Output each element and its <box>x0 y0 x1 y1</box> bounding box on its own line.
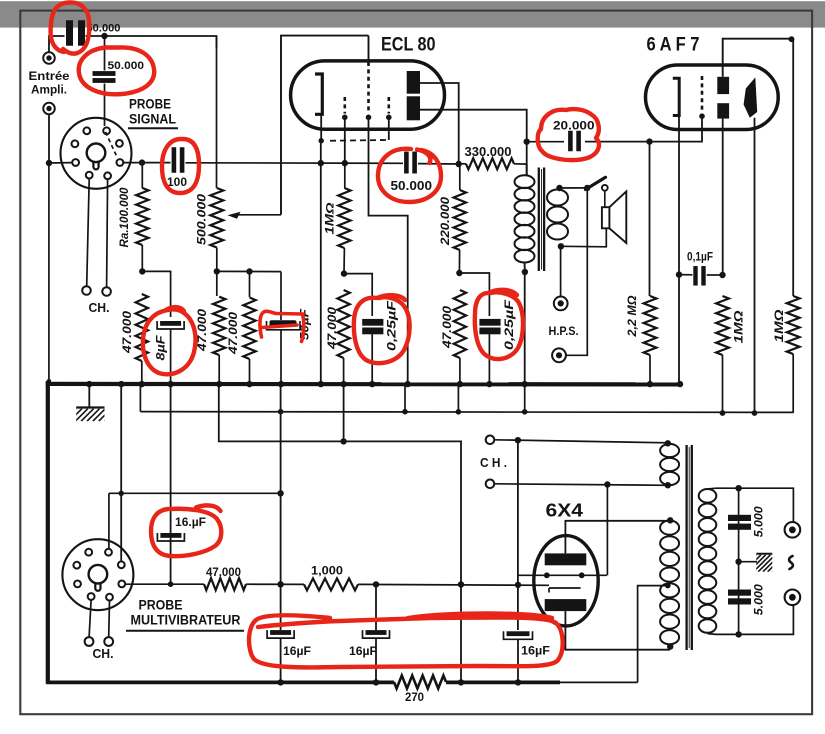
wire Ra to 8uF <box>142 271 170 317</box>
node y493 121 <box>119 491 124 496</box>
grid element 6AF7 <box>673 78 679 115</box>
secondary coil audio <box>547 190 568 206</box>
node secondary top <box>556 185 562 191</box>
wire signal line b <box>186 162 404 165</box>
terminal Entree top <box>43 52 55 64</box>
wire secondary top to switch <box>560 187 588 189</box>
svg-text:PROBE: PROBE <box>139 598 183 613</box>
resistor 47.000 E <box>454 290 466 358</box>
svg-text:2,2 MΩ: 2,2 MΩ <box>625 295 639 338</box>
red circle cap 8uF <box>143 307 196 374</box>
node sec top cap <box>735 485 741 491</box>
capacitor 16uF B <box>270 630 291 635</box>
resistor 330.000 <box>466 158 514 169</box>
capacitor 50.000 A <box>66 20 73 46</box>
node pot bottom <box>214 268 220 274</box>
capacitor 50uF <box>270 320 297 327</box>
svg-text:Entrée: Entrée <box>29 69 70 83</box>
resistor 2.2M <box>649 142 651 296</box>
node feed 343 <box>340 438 346 444</box>
wire grid node to 6AF7 pin <box>650 117 703 142</box>
heater pin 6AF7 <box>701 76 704 113</box>
capacitor 5.000 B <box>728 590 751 596</box>
wire B- line <box>140 411 793 414</box>
node 220k bottom <box>456 270 462 276</box>
svg-text:Ra.100.000: Ra.100.000 <box>119 187 131 248</box>
terminal Entree bottom <box>43 103 55 115</box>
svg-text:16µF: 16µF <box>349 646 377 658</box>
svg-text:CH.: CH. <box>89 301 110 315</box>
node input junction <box>46 160 52 166</box>
node primary bottom <box>522 269 528 275</box>
node 518 heater <box>515 437 521 443</box>
wire col280 bus to bottom <box>280 384 282 630</box>
red circle cap 0.25uF A <box>354 295 410 363</box>
resistor 1M B <box>787 296 800 354</box>
svg-text:1,000: 1,000 <box>311 566 343 578</box>
potentiometer 500.000 <box>216 36 218 188</box>
stub c <box>457 386 459 412</box>
stub d <box>524 386 526 412</box>
node 0.1uF right <box>719 272 725 278</box>
wire 0.1uF <box>679 274 693 276</box>
capacitor 20.000 <box>568 131 573 152</box>
wire secondary to HPS top <box>560 246 562 296</box>
red circle cap 50.000 B <box>79 47 154 94</box>
wire dashed socket internal <box>106 132 118 157</box>
svg-text:Ampli.: Ampli. <box>31 83 67 97</box>
node HV center tap <box>665 583 671 589</box>
heater pin dashed b <box>367 62 370 114</box>
resistor 220.000 <box>459 164 461 190</box>
wire signal line c <box>418 163 459 165</box>
wire pin c to grid line <box>388 117 390 140</box>
node B- 722 <box>720 410 726 416</box>
label AC tilde <box>789 556 793 569</box>
underline signal <box>128 127 178 129</box>
svg-text:47.000: 47.000 <box>206 567 241 579</box>
capacitor 16uF D <box>507 631 530 636</box>
node B- 754 <box>752 410 758 416</box>
terminal output top <box>785 522 801 538</box>
stub bus to B- line <box>139 386 141 412</box>
wire grid pin to bus <box>320 141 322 384</box>
secondary winding <box>699 489 717 503</box>
wire 50uF to bus <box>280 330 282 384</box>
wire 1M to 0.25 A <box>344 274 372 316</box>
wire 16uF B to bottom <box>280 639 282 683</box>
svg-text:MULTIVIBRATEUR: MULTIVIBRATEUR <box>131 613 241 628</box>
red loop 16uF caps <box>249 615 563 667</box>
wire 6AF7 grid pin to bus end <box>678 116 680 385</box>
wire cap B to socket pin <box>104 84 106 127</box>
red loop 16uF D extra <box>408 614 552 619</box>
node 376 line <box>373 581 379 587</box>
wire 0.25 B to bus <box>488 334 490 384</box>
resistor 47.000 F <box>204 578 246 590</box>
svg-text:5.000: 5.000 <box>754 506 766 538</box>
wire 6AF7 target pin down <box>754 118 756 413</box>
svg-text:330.000: 330.000 <box>465 145 512 159</box>
underline multivibrateur <box>126 630 244 632</box>
resistor 47.000 A <box>136 294 148 361</box>
node 47k C top <box>246 268 252 274</box>
wire 1M B bottom corner <box>792 411 794 413</box>
wiper arrow <box>228 212 241 219</box>
core power transformer <box>685 445 687 650</box>
wire col170 below bus <box>170 384 172 585</box>
wire col121 <box>120 384 122 562</box>
terminal CH left a <box>82 286 91 295</box>
wire 6AF7 anode pin down <box>722 119 724 275</box>
node 460 line <box>458 581 464 587</box>
svg-text:1MΩ: 1MΩ <box>732 310 746 344</box>
terminal HPS top <box>554 297 568 311</box>
svg-text:47.000: 47.000 <box>197 308 209 352</box>
terminal switch contact <box>602 185 608 191</box>
node B- 280 <box>278 409 284 415</box>
node plate2 branch <box>524 139 530 145</box>
wire 8uF to bus <box>170 330 172 385</box>
red circle cap 0.25uF B <box>475 290 523 359</box>
wire col343 below bus <box>343 384 345 441</box>
tube ECL80 envelope <box>291 61 445 129</box>
wire to cap 20.000 <box>527 141 564 143</box>
speaker driver <box>602 207 610 228</box>
HV winding <box>660 521 679 535</box>
resistor 270 <box>394 676 446 689</box>
node 280 line <box>277 581 283 587</box>
capacitor 16uF C <box>366 630 387 635</box>
anode plate 6X4 bottom <box>545 599 587 611</box>
svg-text:C H .: C H . <box>480 456 507 470</box>
svg-text:500.000: 500.000 <box>197 193 209 245</box>
node grid pin <box>319 138 324 143</box>
svg-text:50.000: 50.000 <box>87 23 121 35</box>
wire socket pin to CH left b <box>107 179 108 287</box>
svg-text:6X4: 6X4 <box>546 500 584 521</box>
anode plates 6AF7 <box>717 77 729 94</box>
red circle cap 50.000 C <box>378 149 441 202</box>
svg-text:16µF: 16µF <box>283 646 311 658</box>
wire socket2 E pin to line <box>126 583 204 585</box>
node bottom dots <box>277 679 283 685</box>
node ground mid <box>735 559 741 565</box>
svg-text:16.µF: 16.µF <box>175 517 206 529</box>
wire primary bottom to bus <box>524 272 526 384</box>
capacitor 16uF A <box>160 533 181 538</box>
node 0.1uF left <box>676 271 682 277</box>
svg-text:H.P.S.: H.P.S. <box>549 324 579 338</box>
heater winding <box>660 444 679 457</box>
wire feed line y441 <box>219 386 461 683</box>
terminal HPS bottom <box>552 348 566 362</box>
red circle cap 100 <box>162 139 199 193</box>
node 330k left <box>456 161 462 167</box>
capacitor 0.25uF B <box>479 319 500 326</box>
wire switch contact to speaker <box>604 191 606 208</box>
svg-text:PROBE: PROBE <box>129 97 171 112</box>
speaker horn <box>609 191 626 243</box>
tube 6AF7 envelope <box>646 65 779 130</box>
node 1M bottom <box>341 270 347 276</box>
terminal CH bottom b <box>104 637 113 646</box>
grid element ECL80 <box>315 74 322 114</box>
node switch <box>584 185 590 191</box>
anode plate ECL80 1 <box>407 71 420 94</box>
ground symbol right <box>739 561 757 563</box>
terminal CH left b <box>102 287 111 296</box>
capacitor 0.1uF <box>693 266 697 286</box>
wire secondary top <box>708 488 794 522</box>
cathode line2 6X4 <box>549 587 581 589</box>
wire HPS bottom to switch <box>566 188 587 355</box>
wire terminal1 to cap 50.000 A <box>49 36 65 52</box>
svg-text:SIGNAL: SIGNAL <box>129 112 176 127</box>
capacitor 100 <box>172 147 177 173</box>
capacitor 8uF <box>160 321 181 326</box>
core audio transformer <box>538 168 540 272</box>
wire right column 1M B <box>792 39 794 296</box>
wire 6X4 plate top to HV <box>565 521 669 554</box>
anode plate ECL80 2 <box>407 96 420 120</box>
svg-text:20.000: 20.000 <box>553 119 595 133</box>
svg-text:47.000: 47.000 <box>327 306 339 350</box>
node sec bottom cap <box>735 631 741 637</box>
red circle cap 50.000 A <box>51 2 90 53</box>
wire HV CT <box>638 586 668 683</box>
cathode line 6X4 <box>518 574 607 576</box>
svg-text:100: 100 <box>167 175 187 189</box>
wire input node down to chassis box <box>48 163 50 380</box>
red marks cap 50uF <box>260 311 303 337</box>
wire socket2 top pin feed <box>108 493 110 549</box>
node y493 280 <box>277 490 283 496</box>
node Ra junction <box>139 159 145 165</box>
wire pin b down <box>344 117 346 163</box>
switch lever <box>586 177 606 189</box>
wire 1000 to 6X4 <box>358 583 549 586</box>
terminal CH bottom a <box>85 637 94 646</box>
wire 47F to 1000 <box>246 583 304 585</box>
node 607 heater <box>604 481 610 487</box>
svg-text:1MΩ: 1MΩ <box>325 202 337 234</box>
wire wiper up to rail B <box>281 36 369 215</box>
capacitor 50.000 B <box>93 71 116 76</box>
svg-text:8µF: 8µF <box>156 334 168 360</box>
stub b <box>404 386 406 412</box>
tube 6X4 envelope <box>534 536 598 626</box>
svg-text:1MΩ: 1MΩ <box>772 309 786 343</box>
wire socket pins to CH left <box>87 179 90 287</box>
wire signal line <box>124 162 171 164</box>
wire grid pin ECL80 <box>320 115 322 141</box>
resistor 1.000 <box>304 578 358 590</box>
node 518 line <box>515 582 521 588</box>
node Ra bottom <box>139 268 145 274</box>
svg-text:50.000: 50.000 <box>391 179 433 193</box>
heater pin dashed a <box>343 97 346 114</box>
svg-text:47.000: 47.000 <box>442 305 454 349</box>
target anode 6AF7 <box>744 77 758 117</box>
primary coil audio transformer <box>515 175 535 188</box>
wire socket2 pins to CH <box>89 600 91 637</box>
svg-text:6 A F 7: 6 A F 7 <box>647 35 700 56</box>
wire terminal2 to socket left pin <box>49 114 72 163</box>
terminal CH right b <box>486 480 495 489</box>
svg-text:270: 270 <box>405 690 424 704</box>
resistor 1M A <box>716 296 729 355</box>
node 170 on line <box>168 581 174 587</box>
anode plate 6X4 top <box>545 553 587 565</box>
svg-text:50.000: 50.000 <box>108 60 145 72</box>
wire 16uF C to bottom <box>375 639 377 683</box>
svg-text:47.000: 47.000 <box>228 311 240 355</box>
wire 6AF7 plate top loop <box>723 39 793 77</box>
capacitor 0.25uF A <box>362 319 383 326</box>
wire secondary bottom to speaker <box>561 228 606 247</box>
wire plate1 to 330k node <box>420 83 459 164</box>
wire plate2 to transformer <box>420 110 527 175</box>
node grid line junction 2 <box>342 160 348 166</box>
heater pin dashed c <box>387 97 390 114</box>
resistor Ra.100.000 <box>141 163 143 188</box>
bus corner <box>47 380 51 385</box>
red circle cap 16uF A <box>151 505 221 556</box>
resistor 47.000 B <box>216 271 218 296</box>
tube socket probe signal <box>61 118 132 189</box>
wire 16uF D to bottom <box>517 640 519 683</box>
bus chassis rail <box>46 382 680 387</box>
resistor 1M grid <box>344 163 346 188</box>
capacitor 50.000 C <box>404 152 409 174</box>
box multivibrator left edge <box>46 381 50 684</box>
wire CH heater down <box>606 485 608 576</box>
wire cap 20.000 to grid node <box>585 141 650 143</box>
svg-text:5.000: 5.000 <box>754 584 766 616</box>
svg-text:16µF: 16µF <box>521 646 550 658</box>
svg-text:0,1µF: 0,1µF <box>687 252 713 264</box>
wire cap A to pot top rail <box>86 36 217 48</box>
terminal CH right a <box>486 436 495 445</box>
wire heater line bottom <box>494 484 667 486</box>
wire secondary bottom <box>708 606 794 635</box>
wire node down to cap 50.000 B <box>104 36 106 71</box>
wire col518 <box>517 440 519 630</box>
svg-text:ECL 80: ECL 80 <box>381 34 436 56</box>
svg-text:0,25µF: 0,25µF <box>504 299 516 350</box>
svg-text:47.000: 47.000 <box>122 310 134 354</box>
node top rail A <box>101 33 107 39</box>
wire 0.25 A to bus <box>371 334 373 384</box>
wire grid feed y493 <box>109 492 281 494</box>
wire pot bottom to 50uF <box>217 270 281 272</box>
svg-text:0,25µF: 0,25µF <box>387 300 399 351</box>
resistor 47.000 C <box>249 272 251 298</box>
terminal output bottom <box>785 590 801 606</box>
node secondary bottom <box>558 243 564 249</box>
wire cap column <box>738 488 740 634</box>
wire heater line top <box>494 440 667 443</box>
wire 6X4 plate bottom <box>565 611 670 650</box>
node 6AF7 grid <box>646 138 652 144</box>
capacitor 5.000 A <box>728 515 751 521</box>
node grid line junction 1 <box>318 160 324 166</box>
red circle cap 20.000 <box>538 109 599 160</box>
ground symbol left <box>88 386 90 407</box>
box multivibrator bottom <box>46 681 394 685</box>
resistor 47.000 D <box>337 290 349 358</box>
svg-text:CH.: CH. <box>93 647 114 661</box>
wire col376 <box>375 584 377 630</box>
wire 50uF column <box>280 272 282 320</box>
tube socket probe multivibrateur <box>62 539 133 610</box>
svg-text:220.000: 220.000 <box>440 196 452 246</box>
wire 220k to 0.25 B <box>459 273 489 316</box>
wire ECL80 cathode to bus <box>369 117 408 384</box>
